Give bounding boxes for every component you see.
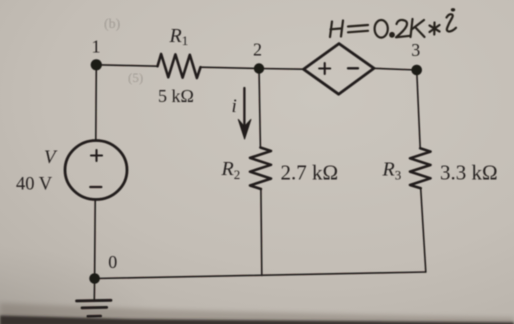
wire bottom rail (95, 272, 426, 279)
resistor R1 (158, 54, 201, 78)
faint show-through marks (104, 17, 143, 85)
svg-text:5 kΩ: 5 kΩ (158, 86, 194, 106)
wire node1 down to source (95, 65, 98, 140)
plus sign in source (91, 150, 102, 161)
svg-text:i: i (232, 96, 237, 117)
svg-text:1: 1 (92, 36, 101, 56)
wire source to node0 (94, 200, 97, 279)
svg-text:2.7 kΩ: 2.7 kΩ (281, 161, 339, 185)
svg-text:(b): (b) (104, 17, 121, 32)
wire node1 to R1 (96, 65, 157, 66)
minus sign in dependent source (348, 67, 358, 69)
wire dependent source to node3 (374, 68, 417, 70)
node 2 (254, 63, 264, 73)
wire node2 down to R2 (259, 69, 260, 148)
wire node3 down to R3 (417, 70, 421, 148)
plus sign in dependent source (319, 63, 330, 74)
resistor R3 (410, 148, 431, 188)
node 3 (411, 65, 422, 76)
wire R3 to bottom rail (421, 188, 426, 272)
handwritten label H = 0.2K * i (330, 8, 456, 37)
wire R1 to node2 (201, 67, 260, 68)
minus sign in source (90, 186, 101, 188)
wire R2 to bottom rail (260, 189, 263, 275)
node 1 (91, 59, 102, 70)
svg-text:0: 0 (108, 252, 117, 272)
node 0 (89, 273, 100, 284)
svg-text:40 V: 40 V (16, 175, 53, 195)
svg-text:3.3 kΩ: 3.3 kΩ (440, 161, 498, 185)
current arrow i (238, 88, 251, 139)
resistor R2 (250, 148, 271, 190)
ground stub (93, 279, 95, 300)
dependent source U1 (304, 44, 375, 95)
svg-text:3: 3 (411, 40, 420, 60)
wire node2 to dependent source (259, 68, 304, 71)
ground (77, 300, 111, 316)
svg-text:(5): (5) (128, 70, 143, 85)
bottom dark edge (0, 316, 514, 324)
voltage source V 40V (65, 141, 127, 200)
svg-text:2: 2 (253, 40, 262, 60)
